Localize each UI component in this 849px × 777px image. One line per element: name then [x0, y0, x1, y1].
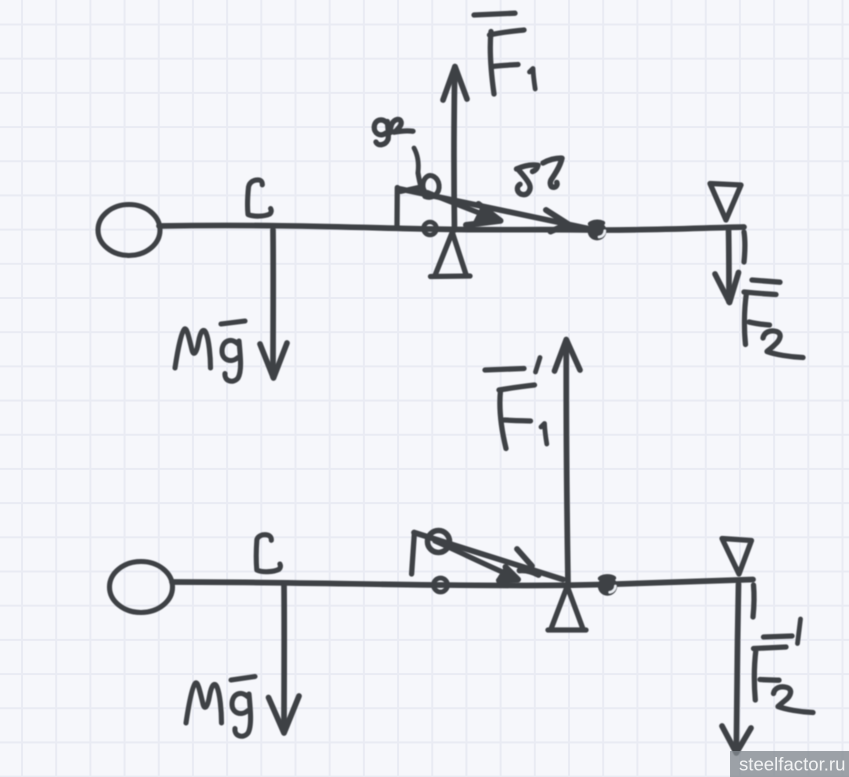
- short tick right of F2 arrow (top): [741, 232, 747, 262]
- weight arrow Mg (bottom): [281, 584, 287, 732]
- force arrow F1 (top, upward): [451, 67, 457, 230]
- label F2' with bar (bottom): [764, 636, 793, 637]
- inner arrow along wedge (top): [427, 193, 500, 221]
- fulcrum triangle (bottom): [548, 587, 586, 630]
- small loop b (angle mark, top): [418, 173, 439, 197]
- inner arrow along wedge (bottom): [435, 541, 514, 577]
- weight arrow Mg (top): [270, 230, 276, 377]
- watermark steelfactor.ru: [730, 751, 849, 777]
- displacement wedge left edge (top): [394, 188, 400, 227]
- pivot dot (bottom): [598, 576, 617, 595]
- label F1 with bar (top): [474, 13, 515, 15]
- label 92 (angle note, top): [374, 120, 388, 145]
- fulcrum circle (bottom): [434, 578, 448, 592]
- label Mg with bar (top): [175, 329, 211, 368]
- label F2 with bar (top): [752, 280, 780, 282]
- bottom lever beam: [172, 580, 753, 586]
- label F1' with bar (bottom): [485, 369, 524, 371]
- second arrowhead on wedge (bottom): [517, 549, 539, 575]
- force arrow F2 (top, downward): [726, 228, 732, 302]
- support triangle (top right): [710, 184, 741, 221]
- label Mg with bar (bottom): [186, 683, 222, 723]
- ball M (top, left end): [98, 205, 160, 256]
- ball M (bottom, left end): [110, 562, 173, 613]
- leader line from 92 to angle: [414, 148, 418, 172]
- fulcrum circle (top): [424, 222, 437, 235]
- label C (bottom): [256, 535, 280, 572]
- force arrow F2' (bottom, downward): [736, 584, 738, 752]
- support triangle (bottom right): [722, 539, 752, 575]
- top lever beam: [159, 225, 744, 230]
- wedge left edge (bottom): [412, 533, 415, 575]
- wedge top edge (bottom): [414, 533, 563, 580]
- second arrowhead near pivot dot (top): [546, 210, 568, 232]
- label dS (top): [517, 165, 539, 195]
- force arrow F1' (bottom, upward): [566, 340, 568, 584]
- pivot dot (top): [588, 222, 607, 241]
- svg-text:steelfactor.ru: steelfactor.ru: [739, 754, 845, 775]
- ring on wedge (bottom): [428, 531, 450, 553]
- label C (top, centre of gravity): [248, 180, 272, 216]
- fulcrum triangle (top): [431, 233, 471, 277]
- short tick right of F2' arrow (bottom): [753, 585, 754, 617]
- displacement wedge top edge (top): [398, 189, 588, 229]
